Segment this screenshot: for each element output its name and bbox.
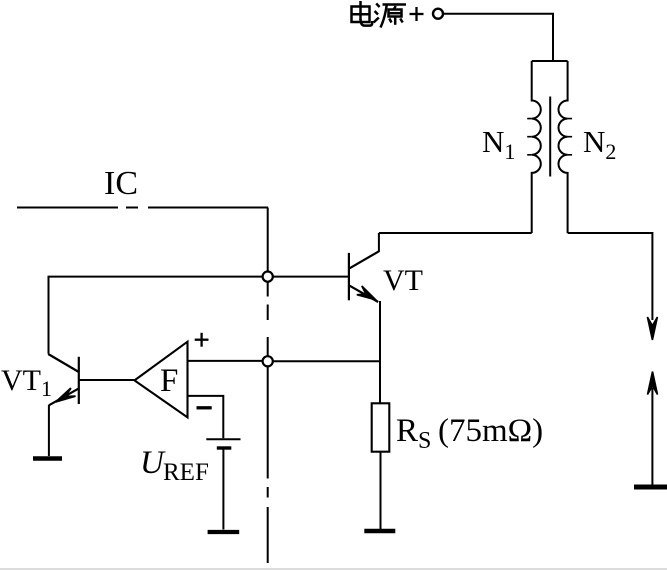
wire: VT1 emitter to ground (48, 405, 50, 456)
battery UREF: long plate (206, 438, 240, 440)
wire: down from IC line corner to node 1 (267, 208, 269, 272)
wire: node 1 left to VT1 collector branch (49, 277, 263, 354)
svg-text:IC: IC (104, 165, 138, 202)
wire: VT emitter down to RS (379, 301, 381, 403)
IC boundary dash-dot horizontal line (17, 207, 268, 209)
transformer N2 winding (right) (558, 61, 567, 233)
transistor VT1 (left, emitter to ground) (48, 354, 79, 405)
svg-text:REF: REF (163, 459, 209, 486)
label 电源 (power source, hand-drawn CJK glyphs) (352, 1, 407, 28)
transformer N1 winding (left) (532, 61, 541, 233)
arrow up (648, 372, 658, 395)
resistor RS (372, 403, 390, 451)
plus sign of power terminal (410, 7, 424, 21)
dash-dot centerline below node2 (267, 366, 269, 563)
ground (below battery) (208, 530, 240, 534)
wire: node2 right to emitter column (273, 360, 380, 362)
transformer: top bar and primary-side frame (532, 60, 568, 62)
svg-text:N1: N1 (482, 124, 515, 164)
arrow down (output current) (647, 317, 657, 340)
svg-text:VT: VT (383, 264, 423, 297)
plus input label (195, 333, 209, 347)
scan artifact line at bottom edge (0, 568, 667, 570)
svg-text:VT1: VT1 (1, 364, 52, 401)
transistor VT (NPN) (349, 251, 379, 302)
node 1 (open junction circle) (263, 272, 273, 282)
wire: node 1 right to VT base (273, 276, 348, 278)
dash-dot centerline between node1 and node2 (267, 282, 269, 357)
wire: VT collector up to transformer (378, 233, 380, 252)
wire below up-arrow (651, 388, 653, 485)
transformer core (549, 97, 551, 177)
minus input label (197, 406, 212, 409)
svg-text:N2: N2 (583, 124, 616, 164)
VT emitter arrowhead (357, 286, 376, 300)
ground (right output) (634, 485, 667, 490)
node 2 (open junction circle) (263, 356, 273, 366)
op-amp F (triangle, points left) (135, 342, 188, 418)
terminal circle (power input) (433, 9, 443, 19)
wire: op-amp - input to battery (188, 396, 224, 438)
wire: N1 bottom to VT collector (379, 232, 532, 234)
ground (below VT1) (33, 456, 62, 461)
wire: N2 bottom to right output (568, 233, 653, 320)
wire from terminal to transformer top (444, 14, 554, 61)
wire: op-amp + input to node 2 (188, 360, 263, 362)
ground (below RS) (364, 529, 395, 534)
svg-text:F: F (160, 363, 178, 399)
battery UREF: short thick plate (217, 446, 232, 449)
wire: RS to ground (380, 452, 382, 529)
wire: VT1 base to op-amp output (79, 379, 135, 381)
VT1 emitter arrowhead (56, 388, 76, 402)
wire: battery to ground (222, 448, 224, 530)
svg-text:RS (75mΩ): RS (75mΩ) (396, 413, 543, 454)
